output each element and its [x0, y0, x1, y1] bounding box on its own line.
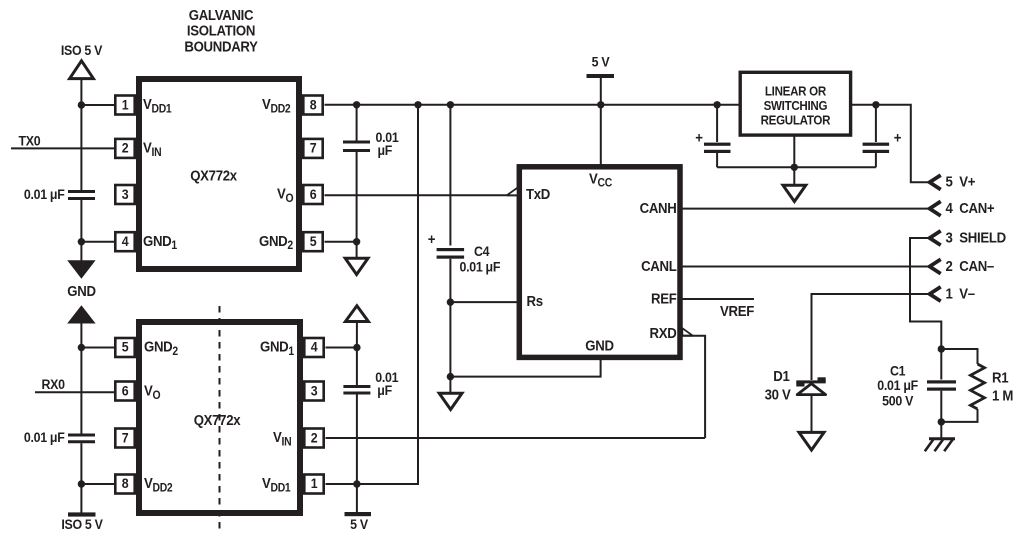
IC U2 QX772x digital isolator body: [139, 322, 300, 513]
value C4 0.01 uF: [460, 244, 501, 275]
svg-text:BOUNDARY: BOUNDARY: [184, 38, 258, 55]
isolation boundary dashed line: [219, 306, 221, 529]
junction dot C1/R1 bottom: [938, 418, 945, 425]
svg-text:CANL: CANL: [641, 257, 677, 274]
wire REF: [680, 298, 754, 300]
pin 3 box: [304, 382, 323, 401]
power symbol ISO 5 V T-bar (bottom): [68, 512, 96, 516]
svg-text:+: +: [894, 129, 902, 146]
ground symbol (open down-arrow) C4 branch: [439, 393, 462, 409]
wire pin1 to riser: [326, 483, 420, 485]
wire RXD to pin2 net: [682, 336, 705, 438]
power symbol 5 V T-bar: [587, 74, 615, 78]
IC U3 CAN transceiver body: [519, 167, 680, 358]
value 0.01 uF: [375, 369, 398, 398]
value 0.01 uF: [376, 129, 399, 158]
svg-text:4: 4: [311, 339, 319, 355]
wire C4 branch x=450.4: [449, 105, 451, 246]
wire VO pin6 to TxD: [325, 194, 520, 196]
junction dot reg ground: [791, 164, 798, 171]
power symbol 5 V T-bar (bottom): [345, 512, 372, 516]
svg-text:C1: C1: [890, 363, 905, 379]
svg-text:2 CAN–: 2 CAN–: [946, 257, 995, 274]
wire to pin 5: [81, 347, 114, 349]
svg-text:6: 6: [122, 383, 129, 399]
pin 8 box: [303, 96, 322, 115]
junction dot pin1/VDD1: [78, 101, 85, 108]
svg-text:7: 7: [122, 430, 129, 446]
junction dot C1/R1 top: [938, 345, 945, 352]
pin 2 box: [115, 139, 134, 158]
pin 1 box: [115, 96, 134, 115]
pin 6 box: [303, 185, 322, 204]
wire GND pin: [450, 358, 600, 377]
wire CANL to connector: [680, 266, 930, 268]
capacitor (right of regulator): [863, 143, 890, 153]
svg-text:GND: GND: [67, 282, 96, 299]
ground symbol (open down-arrow) regulator: [783, 185, 806, 201]
junction dot pin8/VDD2: [78, 480, 85, 487]
svg-text:2: 2: [122, 140, 129, 156]
capacitor 0.01 uF (iso side, bottom): [68, 435, 95, 442]
junction dot Rs: [447, 298, 454, 305]
wire C1 top: [940, 349, 942, 380]
svg-text:GALVANIC: GALVANIC: [189, 6, 254, 23]
ground symbol GND up-arrow (filled): [67, 305, 95, 323]
wire cap branch x=356.6: [356, 105, 358, 141]
wire right reg cap bottom: [875, 153, 877, 167]
svg-text:1: 1: [311, 476, 318, 492]
wire 5V to VCC: [600, 77, 602, 167]
svg-text:4 CAN+: 4 CAN+: [946, 199, 995, 216]
IC U1 QX772x digital isolator body: [139, 79, 299, 269]
svg-text:C4: C4: [474, 244, 490, 260]
wire riser VDD1 x=418: [417, 105, 419, 485]
output wedge RXD: [682, 328, 693, 336]
wire pin5 to branch: [325, 241, 357, 243]
junction dot rail/riser: [414, 101, 421, 108]
pin 4 box: [115, 232, 134, 251]
value C1 0.01 uF 500 V: [877, 363, 918, 409]
chassis ground below C1: [925, 439, 955, 452]
svg-text:D1: D1: [773, 367, 790, 384]
label GALVANIC ISOLATION BOUNDARY: [184, 6, 258, 54]
svg-text:GND: GND: [585, 337, 614, 354]
svg-text:QX772x: QX772x: [194, 411, 241, 428]
diode D1 zener 30 V: [796, 377, 825, 394]
svg-text:6: 6: [310, 186, 317, 202]
junction dot pin5: [353, 238, 360, 245]
svg-text:5 V: 5 V: [592, 54, 610, 70]
svg-text:μF: μF: [377, 382, 392, 398]
pin 8 box: [115, 475, 134, 494]
capacitor C1 plates: [927, 380, 956, 390]
svg-text:5 V: 5 V: [350, 516, 368, 532]
pin 3 box: [115, 185, 134, 204]
svg-text:ISO 5 V: ISO 5 V: [61, 517, 103, 533]
ground symbol (open down-arrow) D1: [799, 432, 824, 450]
wire pin8 to rail: [325, 104, 739, 106]
capacitor (left of regulator): [704, 143, 731, 153]
wire Rs to IC: [450, 301, 519, 303]
wire regulator bottom pin: [793, 135, 795, 185]
wire CANH to connector: [680, 208, 930, 210]
svg-text:REF: REF: [651, 290, 677, 307]
junction dot pin4/GND1: [78, 238, 85, 245]
pin 5 box: [115, 338, 134, 357]
svg-text:0.01 μF: 0.01 μF: [24, 186, 65, 202]
svg-text:7: 7: [310, 140, 317, 156]
capacitor 0.01 uF (pin4 branch): [343, 385, 370, 395]
wire iso5v column (bottom section): [80, 324, 82, 434]
wire C4 to ground: [449, 259, 451, 394]
wire reg ground bus: [717, 166, 876, 168]
pin 5 box: [303, 232, 322, 251]
svg-text:1 V–: 1 V–: [946, 285, 976, 302]
power symbol ISO 5 V up-arrow (open): [70, 61, 94, 79]
wire TX0 to pin 2: [11, 147, 114, 149]
svg-text:500 V: 500 V: [882, 393, 913, 409]
wire C1 bottom: [940, 391, 942, 439]
resistor R1: [941, 349, 984, 422]
svg-text:4: 4: [122, 233, 130, 249]
wire to pin 8: [81, 483, 114, 485]
ground symbol (open down-arrow) below pin5 branch: [345, 258, 368, 274]
wire right reg cap top: [875, 105, 877, 142]
wire RX0 to pin 6: [35, 391, 114, 393]
svg-text:5: 5: [122, 339, 129, 355]
capacitor C4 plates: [437, 248, 465, 259]
svg-text:R1: R1: [992, 369, 1009, 386]
wire to pin 4: [81, 241, 114, 243]
svg-text:TX0: TX0: [19, 133, 41, 149]
svg-text:8: 8: [122, 476, 129, 492]
svg-text:8: 8: [310, 97, 317, 113]
svg-text:30 V: 30 V: [765, 386, 792, 403]
svg-text:0.01 μF: 0.01 μF: [24, 430, 65, 446]
junction dot pin1 branch: [353, 480, 360, 487]
pin 1 box: [304, 475, 323, 494]
svg-text:5: 5: [310, 233, 317, 249]
connector pin 4 CAN+ arrow: [930, 201, 941, 215]
svg-text:3: 3: [311, 383, 318, 399]
wire left reg cap bottom: [716, 153, 718, 167]
connector pin 1 V- arrow: [930, 287, 941, 301]
pin 4 box: [304, 338, 323, 357]
wire shield stub: [910, 238, 941, 350]
svg-text:QX772x: QX772x: [190, 167, 237, 184]
value R1 1 M: [992, 369, 1013, 404]
wire D1 anode: [811, 395, 813, 433]
svg-text:RXD: RXD: [650, 324, 677, 341]
svg-text:0.01 μF: 0.01 μF: [460, 259, 501, 275]
connector pin 3 SHIELD arrow: [930, 231, 941, 245]
svg-text:1: 1: [122, 97, 129, 113]
svg-text:TxD: TxD: [526, 185, 550, 202]
wire bottom branch x=356.9: [356, 322, 358, 386]
svg-text:LINEAR OR: LINEAR OR: [765, 84, 826, 99]
capacitor 0.01 uF (pin8 branch): [343, 141, 370, 153]
junction dot rail/5V: [597, 101, 604, 108]
svg-text:1 M: 1 M: [992, 387, 1013, 404]
pin 2 box: [304, 429, 323, 448]
value D1 30 V: [765, 367, 792, 402]
svg-text:3 SHIELD: 3 SHIELD: [946, 229, 1007, 246]
svg-text:Rs: Rs: [527, 292, 544, 309]
junction dot right reg cap: [872, 101, 879, 108]
junction dot left reg cap: [713, 101, 720, 108]
junction dot pin4: [353, 344, 360, 351]
svg-text:SWITCHING: SWITCHING: [764, 98, 828, 113]
svg-text:ISOLATION: ISOLATION: [187, 22, 255, 39]
regulator box LINEAR OR SWITCHING REGULATOR: [740, 72, 850, 135]
svg-text:REGULATOR: REGULATOR: [761, 113, 831, 128]
connector pin 5 V+ arrow: [930, 175, 941, 189]
wire V- to D1: [812, 294, 930, 380]
svg-text:CANH: CANH: [640, 199, 677, 216]
power symbol up-arrow (open) bottom branch: [345, 306, 368, 322]
svg-text:3: 3: [122, 186, 129, 202]
junction dot rail/C4 branch: [447, 101, 454, 108]
junction dot GND net: [447, 373, 454, 380]
wire left reg cap top: [716, 105, 718, 142]
svg-text:2: 2: [311, 430, 318, 446]
svg-text:VREF: VREF: [720, 302, 755, 319]
connector pin 2 CAN- arrow: [930, 259, 941, 273]
svg-text:+: +: [695, 129, 703, 146]
svg-text:0.01 μF: 0.01 μF: [877, 377, 918, 393]
wire to pin 1: [81, 104, 114, 106]
svg-text:+: +: [428, 230, 436, 247]
svg-text:μF: μF: [378, 142, 393, 158]
input wedge TxD: [507, 188, 518, 196]
wire pin2 VIN to RXD net: [326, 437, 706, 439]
junction dot pin5/GND2: [78, 344, 85, 351]
svg-text:5 V+: 5 V+: [946, 173, 976, 190]
ground symbol GND down-arrow (filled): [67, 260, 95, 279]
pin 6 box: [115, 382, 134, 401]
svg-text:ISO 5 V: ISO 5 V: [61, 43, 103, 59]
svg-text:RX0: RX0: [42, 376, 65, 392]
pin 7 box: [303, 139, 322, 158]
wire pin4 to branch: [326, 347, 357, 349]
capacitor 0.01 uF (iso side, top): [68, 192, 95, 199]
junction dot rail/cap branch: [353, 101, 360, 108]
wire iso5v column (top section): [80, 78, 82, 190]
pin 7 box: [115, 429, 134, 448]
wire rail right of regulator: [851, 105, 930, 183]
